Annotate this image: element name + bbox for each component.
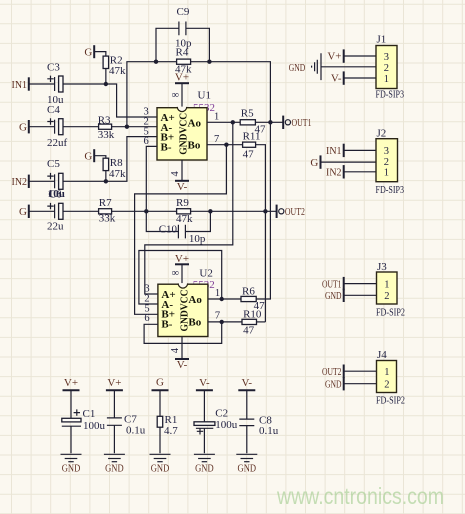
connector J1 FD-SIP3 [376,34,405,101]
junction U2 Bo [220,320,224,324]
port G for R8 [84,149,94,162]
svg-text:2: 2 [384,157,389,168]
wire IN2 to C5 [29,180,55,182]
svg-text:Ao: Ao [188,294,202,306]
svg-text:U2: U2 [199,268,212,280]
wire V- to C8 [246,390,248,419]
capacitor C10 10p [146,211,210,245]
svg-text:∞: ∞ [172,90,180,101]
svg-text:IN2: IN2 [326,167,342,179]
svg-text:100u: 100u [215,419,238,431]
power V- branch C2 [196,377,213,390]
svg-text:C3: C3 [47,61,60,73]
svg-text:33k: 33k [98,129,115,141]
wire R2 to IN1 net [105,69,107,85]
svg-text:10u: 10u [48,188,65,200]
wire R9 to OUT2 port [191,210,277,212]
svg-text:R3: R3 [98,114,111,126]
ground below C2 [194,454,215,474]
power V+ above U1 [175,72,189,84]
svg-text:∞: ∞ [172,268,180,279]
svg-text:V+: V+ [327,51,341,63]
svg-text:OUT1: OUT1 [322,278,342,290]
wire U2 Ao follower feedback [139,251,222,305]
port OUT2 [277,205,305,218]
junction feedback A / pin2 [125,125,129,129]
svg-text:G: G [84,150,92,162]
wire C8 to GND [246,426,248,454]
wire riser to U1 pin 6 [146,146,157,211]
ground below R1 [150,454,171,474]
wire U1 Bo to U2 B+ [135,145,227,315]
capacitor C4 22uf [47,104,68,149]
svg-text:FD-SIP2: FD-SIP2 [376,307,405,319]
wire R6 to OUT1 net [256,122,270,299]
svg-text:2: 2 [384,380,389,391]
junction R2/IN1 [104,82,108,86]
wire V- to C2 [203,390,205,422]
ground below C8 [236,454,257,474]
wire C4 to R3 [63,126,99,128]
wire U2 Ao to R6 [208,298,241,300]
resistor R7 33k [99,197,116,225]
port V+ at J1 [327,49,343,62]
svg-text:J1: J1 [377,34,387,46]
resistor R1 4.7 [157,414,178,437]
svg-text:4.7: 4.7 [164,425,178,437]
wire G to R2 [94,52,106,57]
svg-text:6: 6 [144,136,149,147]
wire OUT2 to J4 pin 1 [344,370,377,372]
wire V+ to U1 pin 8 [181,83,183,108]
wire V+ to J1 pin 3 [344,55,376,57]
wire C5 to U1 pin 5 [63,137,157,182]
svg-text:V-: V- [177,181,188,193]
svg-text:R5: R5 [241,108,254,120]
wire C3 to U1 pin 3 [63,84,157,117]
wire V- to J1 pin 1 [344,77,376,79]
wire R11 to OUT2 net [256,145,266,322]
svg-text:G: G [19,122,27,134]
port OUT1 at J3 [322,277,344,291]
ground below C1 [61,454,82,474]
capacitor C2 100u [194,407,238,434]
power V+ branch C7 [106,377,123,390]
svg-text:B-: B- [161,141,172,153]
svg-text:IN2: IN2 [12,176,28,188]
svg-text:V+: V+ [64,377,78,389]
svg-text:V-: V- [199,377,210,389]
svg-text:GND: GND [289,62,306,74]
wire R10 to OUT2 net [257,321,266,323]
connector J4 FD-SIP2 [376,349,405,407]
svg-text:V-: V- [241,377,252,389]
svg-text:FD-SIP2: FD-SIP2 [376,395,405,407]
power G branch R1 [152,377,169,391]
wire U1 pin 4 to V- [181,160,183,181]
capacitor C6 22u [47,188,65,232]
svg-text:R4: R4 [176,46,189,58]
capacitor C3 [47,61,64,106]
capacitor C7 0.1u [107,414,146,437]
svg-text:7: 7 [215,311,220,322]
junction C9 left [154,60,158,64]
junction R7 row / pin6 riser [144,209,148,213]
svg-text:C4: C4 [47,104,60,116]
wire R7 to R9 [112,210,177,212]
svg-text:1: 1 [384,168,389,179]
svg-text:GND: GND [195,462,214,474]
junction R8/IN2 [104,179,108,183]
svg-text:IN1: IN1 [12,79,28,91]
junction U2 Ao [220,297,224,301]
svg-text:100u: 100u [83,420,106,432]
svg-text:Bo: Bo [188,316,201,328]
power V+ branch C1 [63,377,80,390]
svg-text:C10: C10 [159,223,178,235]
svg-text:G: G [310,157,318,169]
svg-text:7: 7 [214,134,219,145]
resistor R11 47 [243,131,261,161]
svg-text:0.1u: 0.1u [126,425,146,437]
svg-text:R11: R11 [243,131,261,143]
wire U2 Bo to R10 [208,321,242,323]
port G branch2 [19,120,29,134]
port G at J2 [310,155,320,169]
svg-text:FD-SIP3: FD-SIP3 [376,88,405,100]
wire OUT1 to J3 pin 1 [344,283,377,285]
port IN2 at J2 [326,165,344,179]
svg-text:2: 2 [384,63,389,74]
svg-text:33k: 33k [99,213,116,225]
port IN1 at J2 [326,144,344,158]
svg-text:J2: J2 [377,128,387,140]
connector J2 FD-SIP3 [376,128,405,197]
svg-text:R9: R9 [176,197,189,209]
port GND at J4 [325,377,344,391]
svg-text:1: 1 [384,367,389,378]
port OUT1 [283,116,311,129]
wire R5 to OUT1 port [255,121,283,123]
wire G to C6 [29,210,55,212]
svg-text:C1: C1 [83,408,96,420]
svg-text:4: 4 [170,171,181,177]
svg-text:FD-SIP3: FD-SIP3 [376,184,405,196]
svg-text:GND: GND [325,379,342,391]
wire C1 to GND [70,426,72,453]
svg-text:R7: R7 [99,197,112,209]
svg-text:IN1: IN1 [326,145,342,157]
port V- at J1 [331,71,344,84]
svg-text:G: G [84,46,92,58]
port G for R2 [84,45,94,58]
wire feedback A left [127,62,177,127]
svg-text:22uf: 22uf [47,137,68,149]
svg-text:47k: 47k [176,213,193,225]
svg-text:J4: J4 [377,349,387,361]
svg-text:1: 1 [214,112,219,123]
svg-text:GND: GND [238,462,257,474]
svg-text:4: 4 [170,347,181,353]
svg-text:GND: GND [62,462,81,474]
junction C10 right [208,209,212,213]
resistor R8 47k [103,157,126,180]
svg-text:Ao: Ao [188,117,202,129]
op-amp U1 [144,89,220,160]
resistor R5 47 [240,108,266,136]
wire GND to J3 pin 2 [344,294,377,296]
svg-text:47k: 47k [109,65,126,77]
wire U1 Ao to U2 A+ [145,122,233,294]
svg-text:R10: R10 [243,309,262,321]
svg-text:3: 3 [384,146,389,157]
power V- branch C8 [238,377,255,390]
wire IN1 to C3 [29,83,55,85]
svg-text:OUT2: OUT2 [322,366,342,378]
svg-text:GNDVCC: GNDVCC [178,289,190,331]
svg-text:www.cntronics.com: www.cntronics.com [276,483,444,509]
svg-text:3: 3 [384,52,389,63]
wire G to C4 [29,126,55,128]
svg-text:1: 1 [384,74,389,85]
wire U2 pin 4 to V- [181,337,183,360]
svg-text:V-: V- [177,359,188,371]
junction OUT1 [268,120,272,124]
svg-text:10p: 10p [189,233,206,245]
svg-text:0.1u: 0.1u [259,425,279,437]
resistor R3 33k [98,114,115,141]
op-amp U2 [144,268,220,337]
svg-text:47: 47 [243,149,255,161]
svg-text:V+: V+ [175,72,189,84]
power V+ above U2 [175,253,189,265]
wire G to R1 [159,390,161,416]
resistor R9 47k [176,197,193,225]
svg-text:V+: V+ [107,377,121,389]
svg-text:1: 1 [215,288,220,299]
capacitor C1 100u [62,408,106,432]
svg-text:R6: R6 [242,286,255,298]
svg-text:G: G [19,206,27,218]
wire V+ to U2 pin 8 [181,264,183,284]
capacitor C5 [47,158,63,190]
wire C2 to GND [203,428,205,453]
resistor R2 47k [103,54,126,77]
wire C6 to R7 [63,210,99,212]
svg-text:V-: V- [331,73,342,85]
junction C9 right [207,60,211,64]
wire R8 to IN2 net [105,171,107,182]
wire U2 Bo follower feedback [144,322,222,344]
svg-text:6: 6 [144,313,149,324]
wire IN1 to J2 pin 3 [344,149,376,151]
port OUT2 at J4 [322,365,344,379]
resistor R10 47 [242,309,262,337]
svg-text:GNDVCC: GNDVCC [178,113,190,155]
svg-text:GND: GND [151,462,170,474]
wire R4 to OUT1 net [191,62,271,123]
svg-text:B-: B- [161,318,172,330]
wire U1 Bo to R11 [207,144,243,146]
resistor R6 47 [241,286,265,313]
junction Ao [231,120,235,124]
wire IN2 to J2 pin 1 [344,171,376,173]
svg-text:OUT2: OUT2 [285,206,305,218]
svg-text:2: 2 [384,291,389,302]
svg-text:OUT1: OUT1 [292,117,312,129]
power V- below U1 [175,181,189,193]
wire V+ to C1 [70,390,72,418]
wire U1 Ao to R5 [207,121,240,123]
svg-text:47k: 47k [109,168,126,180]
power V- below U2 [175,359,189,371]
wire GND to J4 pin 2 [344,383,377,385]
svg-text:47: 47 [243,325,255,337]
wire R1 to GND [159,427,161,453]
svg-text:C9: C9 [177,6,190,18]
svg-text:G: G [156,377,164,389]
svg-text:1: 1 [384,279,389,290]
svg-text:C5: C5 [47,158,60,170]
ground below C7 [104,454,125,474]
connector J3 FD-SIP2 [376,261,405,319]
svg-text:J3: J3 [377,261,387,273]
svg-text:GND: GND [325,290,342,302]
junction Bo [224,143,228,147]
wire G to R8 [94,156,106,159]
port IN1 [12,77,29,91]
wire C7 to GND [113,425,115,453]
capacitor C9 10p [156,6,209,62]
svg-text:C2: C2 [215,407,228,419]
svg-text:Bo: Bo [188,140,201,152]
wire G to J2 pin 2 [321,161,377,163]
resistor R4 47k [175,46,192,75]
port GND at J3 [325,289,344,303]
wire R3 to U1 pin 2 [112,126,157,128]
wire GND to J1 pin 2 [321,66,376,68]
power GND near J1 [289,53,321,80]
svg-text:GND: GND [105,462,124,474]
capacitor C8 0.1u [239,414,278,437]
port IN2 [12,175,29,189]
svg-text:U1: U1 [198,89,211,101]
svg-text:22u: 22u [47,221,64,233]
port G branch4 [19,205,29,219]
wire V+ to C7 [113,390,115,418]
junction OUT2 [263,209,267,213]
